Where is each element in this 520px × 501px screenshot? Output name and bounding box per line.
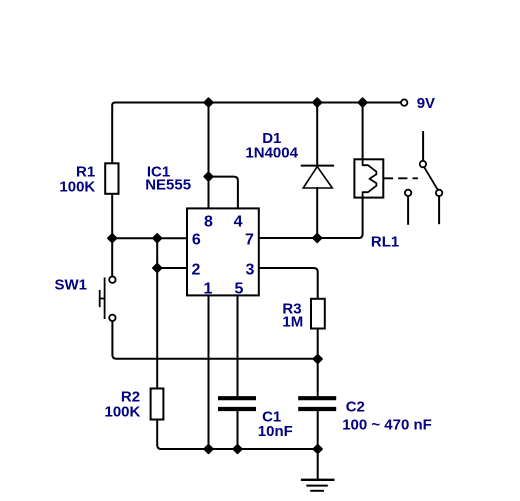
switch left throw lead bbox=[407, 196, 409, 224]
node top rail / pin8 junction bbox=[204, 98, 213, 107]
wire pin 6 from left rail to IC bbox=[112, 237, 187, 239]
relay RL1 box bbox=[354, 159, 383, 197]
ground bbox=[302, 479, 333, 481]
wire relay top lead bbox=[362, 103, 364, 160]
switch top lead bbox=[422, 132, 424, 161]
switch right throw lead bbox=[438, 196, 440, 223]
switch SW1 contact bar bbox=[104, 278, 106, 318]
op-amp IC1 box (NE555 timer) bbox=[187, 208, 259, 295]
svg-text:9V: 9V bbox=[417, 95, 435, 112]
svg-text:6: 6 bbox=[192, 231, 201, 248]
svg-text:3: 3 bbox=[246, 261, 255, 278]
node pin8/pin4 branch junction bbox=[204, 172, 213, 181]
switch SW1 bottom contact circle bbox=[109, 315, 115, 321]
9V terminal circle bbox=[401, 99, 407, 105]
wire vertical to R2 bbox=[156, 238, 158, 388]
node bottom rail / C2 ground junction bbox=[313, 445, 322, 454]
switch SW1 top contact circle bbox=[109, 277, 115, 283]
svg-text:10nF: 10nF bbox=[258, 423, 293, 440]
switch left throw circle bbox=[405, 190, 411, 196]
dashed link relay to switch bbox=[385, 177, 417, 179]
wire R3 bottom to node bbox=[317, 329, 319, 360]
capacitor C1 plates bbox=[220, 398, 254, 409]
svg-text:1: 1 bbox=[204, 281, 213, 298]
node pin7 / diode bottom junction bbox=[313, 234, 322, 243]
node pin2 / R2 vertical junction bbox=[153, 264, 162, 273]
svg-text:SW1: SW1 bbox=[55, 277, 88, 294]
resistor R2 bbox=[151, 389, 164, 420]
node top rail / diode junction bbox=[313, 98, 322, 107]
wire left rail from R1 bottom to SW1 top bbox=[111, 194, 113, 277]
switch right throw circle bbox=[436, 190, 442, 196]
wire pin 5 down to C1 bbox=[237, 295, 239, 396]
switch moving contact bbox=[424, 167, 438, 190]
node left rail / pin6 junction bbox=[108, 234, 117, 243]
node R3 bottom / SW wire junction bbox=[313, 355, 322, 364]
wire pin 8 from top rail down to IC bbox=[208, 103, 210, 209]
wire ground lead bbox=[317, 449, 319, 479]
wire C1 bottom lead bbox=[237, 411, 239, 449]
diode D1 triangle bbox=[303, 167, 332, 188]
node bottom rail / C1 junction bbox=[233, 445, 242, 454]
svg-text:4: 4 bbox=[234, 213, 243, 230]
svg-text:1N4004: 1N4004 bbox=[245, 144, 298, 161]
wire C2 bottom lead bbox=[317, 411, 319, 449]
wire SW1 bottom to node and down to C2 bbox=[112, 321, 317, 396]
svg-text:C2: C2 bbox=[346, 399, 365, 416]
resistor R1 bbox=[105, 163, 118, 194]
svg-text:1M: 1M bbox=[282, 313, 303, 330]
node top rail / relay junction bbox=[358, 98, 367, 107]
diode D1 cathode bar bbox=[302, 165, 333, 167]
svg-text:7: 7 bbox=[245, 231, 254, 248]
svg-text:NE555: NE555 bbox=[145, 177, 191, 194]
svg-text:100K: 100K bbox=[105, 404, 141, 421]
svg-text:8: 8 bbox=[204, 213, 213, 230]
wire diode bottom lead bbox=[316, 188, 318, 238]
node pin6 / R2 vertical junction bbox=[153, 234, 162, 243]
wire pin 2 from R2 vertical to IC bbox=[157, 267, 187, 269]
wire pin 3 to R3 bbox=[259, 268, 318, 299]
relay RL1 coil bbox=[363, 159, 377, 197]
resistor R3 bbox=[311, 299, 325, 329]
svg-text:100K: 100K bbox=[59, 179, 95, 196]
wire pin 7 to diode node and relay bottom bbox=[259, 198, 363, 238]
switch pole circle bbox=[420, 161, 426, 167]
wire top rail with left corner into left rail down to R1 bbox=[112, 103, 401, 164]
svg-text:RL1: RL1 bbox=[371, 234, 399, 251]
svg-text:100 ~ 470 nF: 100 ~ 470 nF bbox=[342, 417, 432, 434]
wire diode top lead bbox=[316, 103, 318, 166]
svg-text:5: 5 bbox=[234, 281, 243, 298]
switch SW1 plunger bbox=[100, 291, 105, 306]
svg-text:2: 2 bbox=[192, 261, 201, 278]
wire pin 4 branch bbox=[209, 177, 238, 209]
node bottom rail / pin1 junction bbox=[204, 445, 213, 454]
wire bottom rail from R2 bbox=[157, 420, 318, 450]
capacitor C2 plates bbox=[300, 398, 334, 409]
wire pin 1 down to bottom rail bbox=[208, 295, 210, 449]
